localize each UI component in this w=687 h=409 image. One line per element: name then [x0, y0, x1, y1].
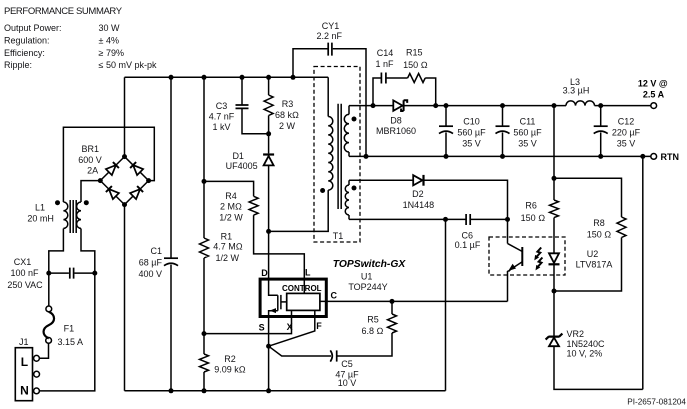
node S ground	[266, 388, 271, 393]
bridge rectifier BR1	[78, 144, 151, 207]
svg-text:R6: R6	[525, 201, 537, 211]
svg-text:C12: C12	[618, 116, 635, 126]
U1 MOSFET	[269, 279, 287, 318]
wire bias bottom	[349, 218, 466, 220]
svg-text:F1: F1	[64, 323, 75, 333]
svg-text:20 mH: 20 mH	[27, 214, 54, 224]
svg-text:150 Ω: 150 Ω	[403, 60, 428, 70]
svg-text:3.3 µH: 3.3 µH	[563, 86, 590, 96]
svg-text:35 V: 35 V	[617, 139, 636, 149]
svg-text:68 kΩ: 68 kΩ	[275, 110, 299, 120]
wire S pin	[268, 318, 270, 391]
svg-text:1/2 W: 1/2 W	[216, 253, 240, 263]
node R3 top	[266, 75, 271, 80]
svg-text:J1: J1	[19, 337, 29, 347]
capacitor C11	[496, 106, 543, 157]
performance summary table	[4, 23, 157, 70]
resistor R4	[204, 181, 304, 293]
svg-text:1 kV: 1 kV	[212, 122, 230, 132]
optocoupler phototransistor	[508, 219, 523, 301]
svg-text:2.2 nF: 2.2 nF	[317, 31, 343, 41]
wire bridge bottom to ground rail	[124, 205, 126, 391]
svg-text:68 µF: 68 µF	[139, 258, 163, 268]
node R8 branch	[552, 176, 557, 181]
wire CX1 to L1 right	[81, 229, 95, 274]
wire C pin	[320, 300, 508, 302]
svg-text:9.09 kΩ: 9.09 kΩ	[214, 365, 246, 375]
svg-text:2.5 A: 2.5 A	[643, 89, 665, 99]
transformer T1 box	[314, 67, 360, 243]
svg-text:D1: D1	[232, 151, 244, 161]
svg-text:CONTROL: CONTROL	[282, 284, 322, 293]
svg-text:1/2 W: 1/2 W	[219, 212, 243, 222]
svg-text:2 W: 2 W	[279, 121, 296, 131]
node primary bottom / drain	[266, 229, 271, 234]
resistor R3	[264, 77, 299, 134]
svg-text:LTV817A: LTV817A	[576, 260, 613, 270]
svg-text:30 W: 30 W	[99, 23, 121, 33]
wire right riser to RTN	[642, 156, 644, 389]
resistor R1 chain wire	[203, 77, 205, 391]
svg-text:VR2: VR2	[567, 329, 585, 339]
wire F pin	[269, 311, 315, 347]
svg-text:C10: C10	[463, 116, 480, 126]
capacitor C6	[455, 214, 508, 250]
svg-text:10 V, 2%: 10 V, 2%	[567, 349, 603, 359]
wire L1 left top to bridge right	[63, 127, 154, 202]
svg-text:MBR1060: MBR1060	[376, 126, 416, 136]
node CY1 tap	[291, 75, 296, 80]
svg-text:4.7 MΩ: 4.7 MΩ	[213, 242, 243, 252]
svg-text:560 µF: 560 µF	[457, 128, 486, 138]
node C12 top	[598, 103, 603, 108]
node X pin junction	[202, 331, 207, 336]
svg-text:CX1: CX1	[14, 257, 32, 267]
U1 control block	[287, 293, 320, 310]
svg-text:± 4%: ± 4%	[99, 36, 119, 46]
svg-text:R15: R15	[406, 47, 423, 57]
svg-text:4.7 nF: 4.7 nF	[209, 112, 235, 122]
wire bias top to D2	[349, 179, 413, 181]
wire feedback tap down	[553, 106, 555, 179]
capacitor C1	[138, 77, 178, 391]
wire X pin	[204, 311, 292, 334]
svg-text:Ripple:: Ripple:	[4, 60, 32, 70]
snubber C14 R15	[373, 47, 436, 105]
capacitor CY1	[293, 21, 366, 156]
svg-text:10 V: 10 V	[338, 378, 357, 388]
svg-text:BR1: BR1	[81, 144, 99, 154]
node C12 bottom	[598, 154, 603, 159]
node C10 bottom	[444, 154, 449, 159]
node CX1 right	[92, 271, 97, 276]
wire bridge top to HV rail	[124, 77, 126, 156]
wire ground rail	[125, 390, 446, 392]
wire RTN rail	[349, 155, 651, 157]
svg-text:L: L	[305, 268, 311, 278]
svg-text:RTN: RTN	[661, 152, 680, 162]
svg-text:F: F	[316, 321, 322, 331]
svg-text:≤ 50 mV pk-pk: ≤ 50 mV pk-pk	[99, 60, 157, 70]
svg-text:150 Ω: 150 Ω	[521, 213, 546, 223]
node R5 tap	[390, 299, 395, 304]
node S	[266, 344, 271, 349]
svg-text:R8: R8	[593, 218, 605, 228]
wire L1 right top to bridge left	[81, 181, 100, 202]
inductor L1 (common-mode choke)	[27, 200, 88, 233]
node C6 left	[443, 217, 448, 222]
wire J1 N to right riser	[39, 273, 94, 391]
node RTN right riser	[640, 154, 645, 159]
svg-text:TOP244Y: TOP244Y	[348, 282, 387, 292]
wire CX1 to L1 left	[49, 229, 64, 274]
wire C6 riser to ground	[445, 219, 447, 390]
wire drain	[268, 231, 270, 279]
resistor R2	[200, 354, 246, 375]
node CX1 left	[46, 271, 51, 276]
transformer T1 primary	[269, 77, 333, 231]
optocoupler light arrows	[534, 248, 542, 271]
svg-text:12 V @: 12 V @	[638, 79, 668, 89]
wire fuse to CX1 node	[48, 273, 50, 306]
svg-text:U2: U2	[587, 249, 599, 259]
node C10 top	[444, 103, 449, 108]
capacitor CX1	[7, 257, 94, 290]
svg-text:600 V: 600 V	[78, 155, 102, 165]
resistor R5	[338, 301, 397, 356]
svg-text:250 VAC: 250 VAC	[7, 280, 43, 290]
svg-text:R3: R3	[282, 99, 294, 109]
capacitor C3	[209, 77, 269, 134]
svg-text:C3: C3	[216, 101, 228, 111]
svg-text:C14: C14	[377, 48, 394, 58]
transformer T1 bias winding	[345, 180, 356, 219]
svg-text:3.15 A: 3.15 A	[58, 337, 84, 347]
node R1 top rail	[202, 75, 207, 80]
svg-text:D: D	[261, 268, 268, 278]
connector J1	[15, 337, 39, 401]
svg-text:TOPSwitch-GX: TOPSwitch-GX	[333, 259, 407, 270]
node C6 right	[505, 217, 510, 222]
svg-text:150 Ω: 150 Ω	[587, 230, 612, 240]
capacitor C5	[269, 346, 359, 388]
node C11 top	[500, 103, 505, 108]
svg-text:R4: R4	[225, 191, 237, 201]
terminal RTN	[651, 154, 657, 160]
optocoupler LED	[549, 253, 560, 291]
capacitor C12	[594, 106, 641, 157]
terminal 12V output	[651, 103, 657, 109]
wire R8 top branch	[554, 178, 622, 217]
svg-text:Regulation:: Regulation:	[4, 36, 50, 46]
svg-text:400 V: 400 V	[138, 269, 162, 279]
svg-text:560 µF: 560 µF	[513, 128, 542, 138]
svg-text:S: S	[259, 322, 265, 332]
node C3 top	[240, 75, 245, 80]
node R4 branch	[202, 179, 207, 184]
transformer T1 secondary	[344, 106, 356, 157]
svg-text:C5: C5	[341, 359, 353, 369]
svg-text:C1: C1	[150, 246, 162, 256]
svg-text:Output Power:: Output Power:	[4, 23, 62, 33]
svg-text:35 V: 35 V	[518, 139, 537, 149]
svg-text:PERFORMANCE SUMMARY: PERFORMANCE SUMMARY	[4, 6, 123, 17]
diode D2	[403, 175, 508, 220]
svg-text:1N5240C: 1N5240C	[567, 339, 606, 349]
svg-text:220 µF: 220 µF	[612, 128, 641, 138]
node feedback tap	[552, 103, 557, 108]
svg-text:R2: R2	[224, 354, 236, 364]
node R2 bottom	[202, 388, 207, 393]
diode D8	[376, 100, 416, 136]
wire output rail	[403, 105, 566, 107]
node C1 top	[169, 75, 174, 80]
svg-text:C11: C11	[520, 116, 536, 126]
svg-text:35 V: 35 V	[462, 139, 481, 149]
svg-text:0.1 µF: 0.1 µF	[455, 240, 481, 250]
node C11 bottom	[500, 154, 505, 159]
inductor L3	[563, 77, 595, 105]
svg-text:L1: L1	[35, 203, 45, 213]
svg-text:U1: U1	[361, 272, 373, 282]
TOPSwitch U1 box	[260, 279, 326, 316]
svg-text:C6: C6	[462, 230, 474, 240]
transformer T1 core	[338, 104, 341, 209]
fuse F1	[44, 306, 84, 347]
svg-text:C: C	[331, 291, 338, 301]
svg-text:UF4005: UF4005	[226, 161, 258, 171]
svg-text:D2: D2	[412, 189, 424, 199]
resistor R1	[200, 232, 243, 263]
capacitor C10	[439, 106, 486, 157]
node CY1 RTN	[364, 154, 369, 159]
svg-text:100 nF: 100 nF	[10, 268, 39, 278]
svg-text:N: N	[20, 384, 29, 398]
node snubber left	[371, 103, 376, 108]
wire L3 to output	[595, 105, 651, 107]
svg-text:2 MΩ: 2 MΩ	[220, 201, 242, 211]
zener VR2	[546, 291, 643, 389]
svg-text:1N4148: 1N4148	[403, 200, 435, 210]
svg-text:PI-2657-081204: PI-2657-081204	[627, 398, 686, 407]
node C1 bottom	[169, 388, 174, 393]
wire secondary to D8	[349, 105, 394, 107]
node LED bottom	[552, 289, 557, 294]
resistor R6	[521, 178, 559, 253]
svg-text:R5: R5	[367, 315, 379, 325]
svg-text:Efficiency:: Efficiency:	[4, 48, 45, 58]
svg-text:≥ 79%: ≥ 79%	[99, 48, 124, 58]
resistor R8	[554, 217, 626, 291]
svg-text:1 nF: 1 nF	[375, 59, 394, 69]
svg-text:R1: R1	[221, 232, 233, 242]
wire HV rail	[125, 76, 329, 78]
node snubber right	[433, 103, 438, 108]
wire J1 L to fuse	[39, 344, 48, 359]
svg-text:6.8 Ω: 6.8 Ω	[362, 326, 384, 336]
optocoupler U2 box	[489, 237, 565, 275]
svg-text:D8: D8	[390, 115, 402, 125]
svg-text:T1: T1	[333, 231, 344, 241]
svg-text:L: L	[21, 355, 28, 369]
svg-text:2A: 2A	[87, 166, 98, 176]
diode D1	[226, 134, 274, 232]
node clamp	[266, 131, 271, 136]
svg-text:CY1: CY1	[322, 21, 340, 31]
